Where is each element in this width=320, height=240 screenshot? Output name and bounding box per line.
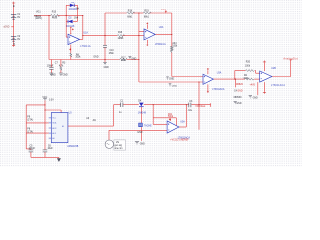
wire mid vertical x138.9 bbox=[138, 13, 140, 82]
gnd glyph cluster low bbox=[234, 101, 237, 103]
junction dots bbox=[44, 12, 236, 110]
junction (82.8,35.6) bbox=[82, 35, 83, 36]
wire D3 chain bbox=[140, 107, 142, 123]
wire op3 plus ref vertical bbox=[198, 82, 200, 130]
junction (141.3,104.7) bbox=[141, 104, 142, 105]
junction (234.8,79.1) bbox=[234, 79, 235, 80]
wire U1A vplus stub bbox=[70, 28, 72, 35]
wire VCC down bbox=[44, 100, 46, 149]
wire op3 top input bbox=[172, 76, 203, 78]
junction (138.9,59.5) bbox=[138, 59, 139, 60]
junction (105,35.6) bbox=[104, 35, 105, 36]
source circle bbox=[105, 140, 113, 148]
junction (138.9,13) bbox=[138, 12, 139, 13]
svg-text:GND: GND bbox=[51, 75, 56, 77]
wire bottom gnd rail bbox=[31, 156, 59, 158]
wire clamp right rail down to output bbox=[82, 16, 84, 40]
wire source stub bbox=[108, 130, 110, 140]
wire cluster stub below out3 bbox=[235, 79, 237, 87]
svg-text:68k1: 68k1 bbox=[144, 16, 150, 18]
svg-text:SCL: SCL bbox=[52, 118, 56, 120]
svg-text:100nF: 100nF bbox=[47, 66, 54, 68]
resistor R1 bbox=[51, 14, 60, 16]
wire clamp bottom edge D2 bbox=[66, 20, 77, 22]
svg-text:VCC: VCC bbox=[161, 9, 166, 11]
wire generator to R1 bbox=[34, 15, 51, 17]
svg-text:LT6011ACA: LT6011ACA bbox=[212, 88, 225, 91]
wire VCC flag stub U2A bbox=[165, 10, 167, 13]
wire op4 vplus stub bbox=[263, 62, 265, 71]
svg-text:(2TA): (2TA) bbox=[27, 119, 33, 122]
wire bottom chain bbox=[114, 104, 121, 106]
svg-text:U2B: U2B bbox=[271, 68, 276, 70]
gnd glyph rail corner bbox=[166, 77, 169, 79]
svg-text:R15: R15 bbox=[52, 11, 57, 13]
wire VCC to left rail bbox=[26, 104, 45, 106]
wire rail y59.5 bbox=[49, 59, 120, 61]
svg-text:U1A: U1A bbox=[83, 32, 88, 35]
wire fb top R20 bbox=[235, 70, 246, 72]
flag top of battery bbox=[12, 2, 15, 5]
svg-text:A04: A04 bbox=[172, 42, 177, 45]
ground glyph C10 bbox=[103, 63, 107, 65]
svg-text:100k: 100k bbox=[245, 65, 251, 67]
gnd glyph D3 chain bbox=[135, 142, 139, 144]
wire op5 plus line bbox=[109, 129, 167, 131]
wire R3 gnd stub bbox=[60, 70, 62, 73]
wire op4 plus gnd stub bbox=[257, 82, 259, 95]
svg-text:A0: A0 bbox=[52, 137, 54, 140]
junction (45,110) bbox=[44, 109, 45, 110]
svg-text:68k1: 68k1 bbox=[127, 16, 133, 18]
meter box below D3 bbox=[139, 123, 143, 127]
junction (82.8,15.6) bbox=[82, 15, 83, 16]
wire IC output bbox=[68, 125, 114, 127]
op-amp U2A bbox=[144, 29, 155, 40]
svg-text:0R82C: 0R82C bbox=[236, 84, 243, 86]
wire C6 bottom bbox=[44, 152, 46, 157]
svg-text:VG1: VG1 bbox=[36, 12, 41, 14]
svg-text:VCC/2out: VCC/2out bbox=[195, 105, 205, 108]
svg-text:sine 1m: sine 1m bbox=[115, 148, 123, 150]
wire op5 fb left vertical bbox=[152, 105, 154, 125]
svg-text:LT6011A: LT6011A bbox=[80, 45, 91, 48]
resistor R4 vertical bbox=[70, 53, 72, 57]
svg-text:250n: 250n bbox=[109, 53, 115, 55]
junction (138.9,35.6) bbox=[138, 35, 139, 36]
wire fb top bbox=[105, 12, 127, 14]
wire C5 top bbox=[26, 148, 31, 150]
svg-text:100nF: 100nF bbox=[29, 148, 36, 150]
wire clamp left rail bbox=[65, 5, 67, 21]
svg-text:GND: GND bbox=[169, 78, 174, 80]
resistor R3 vertical bbox=[60, 67, 62, 70]
diode D2 bbox=[68, 20, 73, 23]
svg-text:TACHE: TACHE bbox=[144, 124, 152, 127]
svg-text:GND: GND bbox=[140, 144, 145, 146]
svg-text:LT6011CA: LT6011CA bbox=[155, 43, 166, 46]
wire U1A output jog bbox=[80, 38, 83, 40]
wire U2A minus stub bbox=[139, 31, 144, 33]
wire R1 to clamp left rail bbox=[58, 15, 67, 17]
capacitor C1 bbox=[121, 103, 123, 108]
svg-text:1N4: 1N4 bbox=[74, 17, 79, 19]
mark op3 vminus bbox=[207, 91, 209, 93]
wire op3 output / R2 row bbox=[213, 78, 245, 80]
diode D3 bbox=[139, 103, 144, 107]
svg-text:GND: GND bbox=[63, 75, 68, 77]
tick U2A vcc flag bbox=[165, 10, 167, 12]
svg-text:GND: GND bbox=[237, 91, 242, 93]
wire VCC to IC top bbox=[45, 109, 61, 111]
plus mark U2A vplus bbox=[146, 23, 148, 25]
wire P2 pullup bbox=[26, 132, 49, 134]
svg-text:10uF: 10uF bbox=[48, 148, 54, 150]
svg-text:100k: 100k bbox=[243, 78, 249, 80]
junction (45,104.9) bbox=[44, 104, 45, 105]
resistor A04 vertical bbox=[171, 46, 173, 52]
svg-text:GND: GND bbox=[137, 132, 142, 134]
wire fb vertical x234.8 bbox=[234, 71, 236, 80]
svg-text:9V: 9V bbox=[17, 39, 20, 41]
svg-text:GND: GND bbox=[93, 57, 98, 59]
ground glyph R3 bbox=[59, 73, 63, 75]
wire P1 pullup bbox=[26, 122, 49, 124]
plus mark op5 vplus bbox=[169, 118, 171, 120]
gnd glyph op4 plus bbox=[249, 96, 252, 98]
wire battery stack vertical bbox=[13, 4, 15, 44]
svg-text:9H: 9H bbox=[76, 9, 79, 11]
wire U2A vminus stub bbox=[147, 40, 149, 44]
op-amp 3 bbox=[203, 74, 213, 84]
svg-text:GND: GND bbox=[172, 86, 177, 88]
svg-text:GND: GND bbox=[131, 58, 136, 60]
wire input branch down to rail bbox=[48, 16, 50, 60]
svg-text:GND: GND bbox=[253, 97, 258, 99]
svg-text:+VCC/2 GNDREF: +VCC/2 GNDREF bbox=[170, 140, 189, 142]
svg-text:3.3V: 3.3V bbox=[49, 100, 54, 102]
end tick bbox=[210, 103, 212, 107]
plus mark U1A vplus bbox=[70, 27, 74, 30]
tick op4 vplus bbox=[263, 61, 266, 62]
svg-text:1N4148: 1N4148 bbox=[138, 113, 147, 115]
svg-text:GND: GND bbox=[104, 67, 109, 69]
red ticks and small marks bbox=[12, 2, 292, 121]
wire clamp top edge D1 bbox=[66, 4, 77, 6]
svg-text:100k: 100k bbox=[172, 46, 178, 48]
svg-text:ADS1115B: ADS1115B bbox=[67, 145, 78, 148]
op-amp 4 bbox=[260, 71, 272, 82]
wire op4 vminus stub bbox=[263, 82, 265, 92]
wire op4 output bbox=[272, 76, 291, 78]
wire gnd flag stub bbox=[11, 26, 13, 28]
svg-text:4k99: 4k99 bbox=[52, 17, 58, 19]
svg-text:R18: R18 bbox=[128, 10, 133, 12]
junction (105,59.5) bbox=[104, 59, 105, 60]
wire fb right vertical x255.6 bbox=[255, 71, 257, 74]
battery V1 bbox=[11, 15, 16, 20]
op-amp 5 bbox=[167, 121, 179, 133]
svg-text:(1TA): (1TA) bbox=[27, 131, 33, 134]
svg-text:ADR: ADR bbox=[52, 127, 57, 130]
svg-text:R19: R19 bbox=[144, 10, 149, 12]
resistor R18 bbox=[127, 12, 135, 14]
svg-text:C10: C10 bbox=[109, 50, 114, 52]
svg-text:(2kHz): (2kHz) bbox=[35, 18, 42, 20]
resistor R16 bbox=[117, 35, 124, 37]
wire U2A vplus stub bbox=[147, 25, 149, 29]
earth symbol bottom left bbox=[57, 158, 61, 162]
battery terminal dots bbox=[13, 5, 15, 44]
capacitor C10 bars bbox=[103, 45, 107, 47]
resistor R19 bbox=[143, 12, 151, 14]
mark op3 vplus bbox=[207, 68, 209, 70]
svg-text:LT6011ACA: LT6011ACA bbox=[271, 84, 285, 87]
svg-text:U5A: U5A bbox=[180, 120, 185, 123]
IC U3 ADS1115 bbox=[49, 113, 68, 143]
wire op5 output bbox=[179, 126, 186, 128]
resistor R2 bbox=[245, 78, 254, 80]
svg-text:A1: A1 bbox=[62, 125, 64, 128]
svg-text:◅GND: ◅GND bbox=[3, 26, 10, 29]
source label box bbox=[114, 140, 126, 150]
resistor R20 bbox=[245, 70, 254, 72]
wire right vertical x171.8 bbox=[171, 13, 173, 46]
capacitor C5 bbox=[29, 150, 34, 152]
wire fb left vertical x105 bbox=[104, 13, 106, 45]
svg-text:1M96: 1M96 bbox=[118, 38, 124, 40]
junction (199,104.7) bbox=[198, 104, 199, 105]
wire R3 stub bbox=[60, 60, 62, 67]
capacitor C3 bbox=[189, 103, 191, 108]
ground glyph C7 bbox=[49, 73, 53, 75]
junction (186.3,104.7) bbox=[186, 104, 187, 105]
junction (65.3,15.6) bbox=[66, 15, 67, 16]
wire clamp right rail bbox=[77, 5, 79, 21]
VCC bar glyph bbox=[43, 99, 47, 101]
svg-text:1N4148: 1N4148 bbox=[66, 26, 75, 28]
svg-text:1N4148: 1N4148 bbox=[69, 9, 78, 11]
wire C10 gnd stub bbox=[104, 60, 106, 63]
wire op3 bottom input bbox=[139, 81, 203, 83]
svg-text:100k: 100k bbox=[75, 57, 81, 59]
wire U1A out to U2A input bbox=[83, 35, 118, 37]
svg-text:U3A: U3A bbox=[217, 71, 222, 74]
svg-text:0805ZC: 0805ZC bbox=[234, 97, 243, 99]
junction (49,15.6) bbox=[48, 15, 49, 16]
junction (199,82) bbox=[198, 81, 199, 82]
junction (153.2,104.7) bbox=[153, 104, 154, 105]
wire clamp left rail down to +input bbox=[65, 21, 67, 37]
svg-text:VCC: VCC bbox=[42, 97, 47, 99]
wire C7 gnd stub bbox=[50, 70, 52, 73]
junction (235.5,79.1) bbox=[235, 79, 236, 80]
resistor R17 inline bbox=[120, 58, 128, 60]
wire clamp mid crossing bbox=[66, 15, 83, 17]
svg-text:AnalogOut: AnalogOut bbox=[283, 57, 297, 60]
gnd glyph under y82 line bbox=[169, 84, 172, 86]
svg-text:R20: R20 bbox=[246, 62, 251, 64]
svg-text:ALR: ALR bbox=[52, 132, 56, 135]
op-amp U1A bbox=[68, 33, 80, 45]
wire op3 vplus stub bbox=[207, 70, 209, 74]
svg-text:VG: VG bbox=[116, 142, 120, 144]
wire U1A fb branch R4 bbox=[70, 45, 72, 54]
wire C7 stub bbox=[50, 60, 52, 68]
tick analogout flag bbox=[290, 59, 292, 61]
svg-text:500k: 500k bbox=[168, 116, 174, 118]
capacitor C7 bbox=[49, 67, 53, 69]
wire op5 vplus stub bbox=[170, 118, 172, 121]
svg-text:R16: R16 bbox=[118, 32, 123, 34]
capacitor C6 bbox=[43, 150, 48, 152]
wire op3 vminus stub bbox=[207, 84, 209, 91]
wire op5 fb top bbox=[153, 117, 176, 119]
junction (171.8,34.4) bbox=[171, 34, 172, 35]
diode D1 bbox=[70, 4, 74, 7]
svg-text:+4V5: +4V5 bbox=[250, 85, 256, 87]
plus mark U1A vminus bbox=[69, 49, 71, 51]
tick op4 vminus bbox=[263, 92, 266, 94]
svg-text:9V: 9V bbox=[17, 17, 20, 19]
battery V2 bbox=[11, 37, 16, 42]
svg-text:gen sig: gen sig bbox=[115, 145, 123, 147]
svg-text:U2A: U2A bbox=[159, 26, 164, 29]
flag bottom of battery bbox=[12, 44, 15, 46]
ground glyph mid rail bbox=[128, 57, 131, 59]
svg-text:100k: 100k bbox=[121, 60, 127, 62]
wire U2A output bbox=[155, 33, 172, 35]
plus mark U2A vminus bbox=[146, 44, 148, 46]
svg-text:GND: GND bbox=[236, 103, 241, 105]
svg-text:MEAS: MEAS bbox=[35, 15, 42, 18]
